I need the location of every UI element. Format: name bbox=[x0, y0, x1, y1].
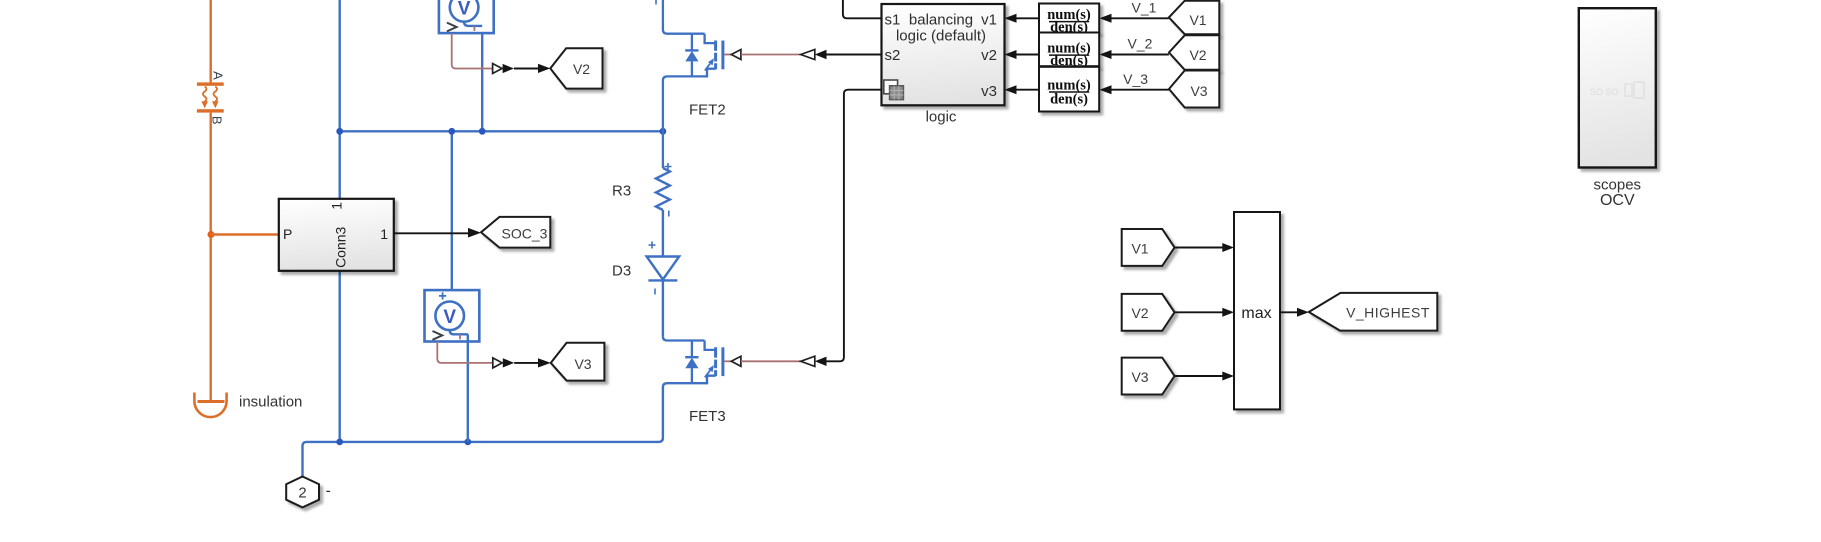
from tag V3 (bottom) bbox=[1122, 358, 1175, 395]
wire: blue horizontal bus y=131.3 bbox=[340, 130, 663, 132]
PS-Simulink converter (lower) bbox=[493, 358, 502, 368]
FET3 gate PS port triangle bbox=[731, 356, 741, 366]
goto tag V3 bbox=[551, 343, 605, 381]
wire: brown PS from FET3 gate to converter bbox=[741, 360, 801, 362]
svg-text:v2: v2 bbox=[981, 47, 997, 64]
insulation reference symbol bbox=[194, 393, 226, 418]
wire: brown PS line from lower sensor bbox=[437, 342, 493, 363]
svg-text:V1: V1 bbox=[1131, 240, 1148, 256]
D3 minus tick bbox=[654, 289, 656, 295]
port 2 hexagon bbox=[286, 477, 319, 508]
transfer function block 1 bbox=[1039, 4, 1099, 33]
wire: bottom blue bus from port 2 to FET3 source bbox=[303, 376, 716, 477]
FET2 source arrow head bbox=[708, 58, 714, 65]
wire: blue net vertical through Conn3 (x=339.7) bbox=[339, 0, 341, 442]
svg-text:OCV: OCV bbox=[1600, 192, 1635, 209]
wire: TF3 output to logic v3 bbox=[1016, 89, 1039, 91]
svg-text:V1: V1 bbox=[1189, 12, 1206, 28]
svg-text:V: V bbox=[443, 307, 456, 328]
svg-text:V_2: V_2 bbox=[1128, 36, 1153, 52]
wire: blue from lower sensor to bottom bus bbox=[467, 334, 469, 442]
svg-text:1: 1 bbox=[329, 202, 345, 210]
resistor R3 bbox=[656, 168, 670, 257]
svg-text:2: 2 bbox=[298, 484, 306, 501]
wire: orange electrical net top segment bbox=[209, 0, 211, 83]
wire: orange branch to Conn3 port P bbox=[211, 233, 279, 235]
breaker/gap component A-B on orange net bbox=[197, 82, 224, 112]
svg-text:logic: logic bbox=[926, 109, 957, 126]
wire: TF2 output to logic v2 bbox=[1016, 54, 1039, 56]
FET3 source arrow head bbox=[708, 365, 714, 372]
svg-text:V2: V2 bbox=[573, 61, 590, 77]
transistor FET2 (N-MOSFET with body diode) bbox=[663, 0, 723, 168]
FET3 body diode triangle bbox=[685, 358, 698, 368]
wire: TF1 output to logic v1 bbox=[1016, 17, 1039, 19]
wire to V2 tag bbox=[514, 68, 538, 70]
svg-text:max: max bbox=[1241, 305, 1271, 322]
svg-text:V2: V2 bbox=[1131, 305, 1148, 321]
svg-text:s1: s1 bbox=[885, 11, 901, 28]
D3 plus mark bbox=[649, 242, 656, 249]
svg-text:-: - bbox=[326, 483, 331, 500]
node: junction dots bottom bus bbox=[336, 439, 343, 446]
cropped tick above FET2 bbox=[655, 0, 657, 5]
svg-text:R3: R3 bbox=[612, 183, 631, 200]
goto tag V2 bbox=[550, 48, 602, 88]
transfer function block 3 bbox=[1039, 67, 1099, 112]
node: junction dots upper bus bbox=[336, 128, 343, 135]
svg-text:P: P bbox=[283, 226, 292, 242]
goto tag V_HIGHEST bbox=[1309, 293, 1438, 331]
svg-text:FET3: FET3 bbox=[689, 408, 726, 425]
svg-text:den(s): den(s) bbox=[1050, 91, 1088, 107]
PS converter at s2 bbox=[801, 49, 815, 59]
svg-text:V_3: V_3 bbox=[1123, 71, 1148, 87]
wire: blue vertical to lower voltage sensor (x=451.8) bbox=[451, 131, 453, 290]
wire: max output to V_HIGHEST bbox=[1280, 311, 1297, 313]
wire: s1 from top into logic block bbox=[843, 0, 882, 18]
R3 minus tick bbox=[668, 211, 670, 217]
FET3 gate lead (brown) bbox=[724, 360, 731, 362]
node: orange junction bbox=[208, 231, 215, 238]
svg-text:V3: V3 bbox=[574, 356, 591, 372]
FET2 gate lead (brown) bbox=[724, 54, 731, 56]
goto tag SOC_3 bbox=[481, 217, 550, 248]
from tag V2 (top) bbox=[1169, 35, 1219, 70]
R3 plus mark bbox=[665, 163, 672, 170]
svg-text:V2: V2 bbox=[1189, 47, 1206, 63]
Conn3 subsystem block bbox=[279, 199, 394, 271]
scope block scopes/OCV bbox=[1579, 8, 1656, 167]
svg-text:D3: D3 bbox=[612, 263, 631, 280]
svg-text:SOC_3: SOC_3 bbox=[502, 226, 548, 242]
from tag V1 (top) bbox=[1169, 1, 1219, 35]
from tag V1 (bottom) bbox=[1122, 229, 1175, 266]
wire: V1 to max bbox=[1175, 247, 1224, 249]
transfer function block 2 bbox=[1039, 33, 1099, 67]
svg-text:s2: s2 bbox=[885, 47, 901, 64]
svg-text:A: A bbox=[211, 71, 226, 80]
wire: V_3 from tag V3 to TF3 bbox=[1112, 89, 1169, 91]
FET2 body diode triangle bbox=[685, 51, 698, 61]
svg-text:FET2: FET2 bbox=[689, 102, 726, 119]
PS-Simulink converter (upper) bbox=[493, 64, 502, 74]
wire: s2 from logic block bbox=[826, 54, 882, 56]
svg-text:v3: v3 bbox=[981, 83, 997, 100]
svg-text:V3: V3 bbox=[1131, 369, 1148, 385]
svg-text:scopes: scopes bbox=[1594, 176, 1642, 193]
faint scope icon content bbox=[1590, 82, 1644, 98]
wire: V_1 from tag V1 to TF1 bbox=[1112, 17, 1169, 19]
diode D3 bbox=[647, 257, 680, 337]
lower voltage sensor bbox=[425, 290, 480, 341]
transistor FET3 (N-MOSFET with body diode) bbox=[663, 336, 723, 383]
svg-text:insulation: insulation bbox=[239, 394, 302, 411]
max (MinMax) block bbox=[1234, 212, 1280, 409]
subsystem block: balancing logic bbox=[882, 4, 1005, 105]
PS converter at s3 bbox=[801, 356, 815, 366]
from tag V3 (top) bbox=[1169, 71, 1219, 108]
svg-text:v1: v1 bbox=[981, 11, 997, 28]
wire: V3 to max bbox=[1175, 375, 1224, 377]
svg-text:SO SO: SO SO bbox=[1590, 87, 1619, 97]
wire: blue vertical from upper voltage sensor (x=481.9) bbox=[481, 26, 483, 131]
svg-text:V: V bbox=[458, 0, 471, 20]
from tag V2 (bottom) bbox=[1122, 294, 1175, 331]
wire: brown PS line from upper sensor to converter bbox=[452, 33, 493, 68]
FET2 gate PS port triangle bbox=[731, 50, 741, 60]
svg-text:V_HIGHEST: V_HIGHEST bbox=[1346, 304, 1430, 320]
svg-text:Conn3: Conn3 bbox=[333, 226, 349, 267]
subsystem icon (overlapping squares) bbox=[884, 80, 904, 100]
svg-text:1: 1 bbox=[380, 226, 388, 242]
svg-text:V3: V3 bbox=[1190, 83, 1207, 99]
wire: s3 from logic block down and left bbox=[826, 90, 882, 362]
wire: Conn3 output to SOC_3 bbox=[394, 232, 468, 234]
wire: V_2 from tag V2 to TF2 bbox=[1112, 54, 1169, 56]
wire: orange electrical net lower segment bbox=[209, 113, 211, 401]
svg-text:balancing: balancing bbox=[909, 11, 973, 28]
wire: brown PS from FET2 gate to converter bbox=[741, 54, 801, 56]
upper voltage sensor (cropped at top) bbox=[439, 0, 494, 33]
wire to V3 tag bbox=[514, 362, 538, 364]
svg-text:V_1: V_1 bbox=[1132, 0, 1157, 15]
wire: V2 to max bbox=[1175, 311, 1224, 313]
svg-text:logic (default): logic (default) bbox=[896, 28, 986, 45]
